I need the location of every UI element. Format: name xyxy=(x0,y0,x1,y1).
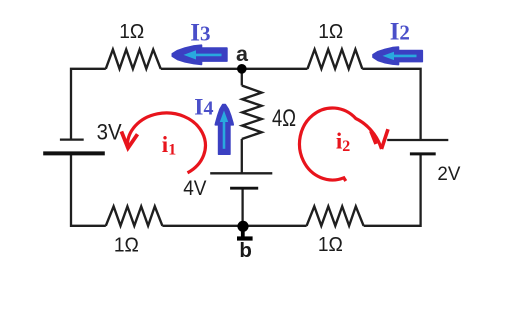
battery V1 3V left: short top plate xyxy=(60,139,84,141)
wire bottom middle segment xyxy=(162,225,306,227)
node b junction dot xyxy=(237,221,248,232)
resistor R1 1ohm top-left zigzag xyxy=(106,50,161,69)
node b tick stroke xyxy=(241,227,245,237)
svg-text:4V: 4V xyxy=(183,177,206,200)
svg-text:1Ω: 1Ω xyxy=(114,234,139,256)
resistor R2 1ohm top-right zigzag xyxy=(308,49,363,68)
svg-text:1Ω: 1Ω xyxy=(119,21,144,43)
resistor R4 1ohm bottom-right zigzag xyxy=(307,206,364,225)
svg-text:4Ω: 4Ω xyxy=(272,105,296,132)
battery V3 4V middle: long top plate xyxy=(210,172,272,174)
node a junction dot xyxy=(237,64,247,74)
svg-text:1Ω: 1Ω xyxy=(318,21,343,43)
mesh current loop i1 (red, counterclockwise arc) xyxy=(127,113,205,173)
svg-text:b: b xyxy=(239,239,252,262)
battery V2 2V right: short bottom plate xyxy=(410,152,436,155)
svg-text:I2: I2 xyxy=(390,18,410,45)
wire top-right corner segment xyxy=(362,69,420,139)
svg-text:I4: I4 xyxy=(194,94,213,120)
svg-text:1Ω: 1Ω xyxy=(318,234,343,256)
battery V2 2V right: long top plate xyxy=(387,139,448,141)
current arrow I2 (blue, pointing left) xyxy=(373,47,422,65)
node b tick bar xyxy=(237,236,253,240)
current arrow I3 (blue, pointing left) xyxy=(172,45,227,64)
mesh current loop i2 (red, clockwise arc) xyxy=(299,108,381,181)
battery V1 3V left: long thick bottom plate xyxy=(43,151,105,155)
svg-text:2V: 2V xyxy=(437,163,460,185)
mesh current loop i1 arrowhead xyxy=(121,131,137,148)
wire middle branch upper (node a to R5) xyxy=(241,69,243,86)
wire middle branch lower (4V battery to node b) xyxy=(241,188,243,226)
wire bottom-right corner segment xyxy=(364,155,421,226)
wire top middle segment xyxy=(161,68,308,70)
resistor R5 4ohm middle vertical zigzag xyxy=(242,86,262,140)
current arrow I4 (blue, pointing up) xyxy=(215,105,233,155)
wire bottom-left corner segment xyxy=(71,155,106,226)
wire top-left corner segment xyxy=(71,69,106,139)
svg-text:I3: I3 xyxy=(190,19,210,46)
mesh current loop i2 arrowhead xyxy=(371,129,388,149)
svg-text:a: a xyxy=(236,42,249,66)
resistor R3 1ohm bottom-left zigzag xyxy=(106,206,163,225)
battery V3 4V middle: short bottom plate xyxy=(230,187,258,190)
svg-text:3V: 3V xyxy=(97,119,122,144)
wire middle branch mid (R5 to 4V battery) xyxy=(241,139,243,173)
